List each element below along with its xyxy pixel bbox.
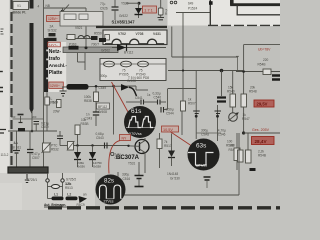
thick black bus bar long segment (30, 23, 34, 114)
Netztrafo title (49, 49, 68, 76)
vertical x232.7 (232, 71, 234, 95)
cap 77u C926 (100, 0, 119, 20)
diode Gr538 (89, 146, 96, 168)
cap 0.50u C544 (161, 89, 174, 116)
resistor 15k R540 (227, 86, 236, 114)
cap 0.47u C507 (27, 131, 40, 167)
board edge dashed vertical line (10, 0, 12, 170)
wire base left (74, 145, 129, 147)
black choke component (62, 84, 136, 90)
white box V1 top-left (13, 2, 29, 10)
red box 12V~ upper (48, 42, 61, 47)
wire down left (47, 187, 49, 199)
potentiometer 1k R547 (228, 113, 250, 122)
resistor 220 R54B (236, 58, 280, 75)
red box 12V0~ (49, 82, 64, 88)
junction dots (95, 85, 98, 88)
cap 0,17u C509 (34, 122, 50, 132)
cap 1n C343 (85, 112, 100, 126)
resistor R838 (84, 87, 99, 112)
red box 29.5V (254, 100, 274, 107)
right-mid resistor 1k (181, 98, 196, 136)
dark blob right (272, 76, 280, 80)
cap 2.2u C535 (111, 152, 123, 160)
grain overlay (0, 0, 280, 210)
mid bus wire y70.5 (168, 70, 244, 72)
choke L1 (52, 197, 64, 201)
wire below bus bar (31, 111, 33, 131)
red box NY (120, 135, 131, 141)
light box mid-top (60, 12, 103, 27)
scallop bumps (105, 39, 164, 44)
resistor 100 R549 (204, 133, 241, 188)
choke L2 (66, 197, 78, 201)
junction (76, 144, 78, 146)
black bar above title (47, 38, 57, 41)
resistor left column (45, 92, 59, 131)
junction blob (61, 10, 65, 14)
wire and arrow cap (168, 88, 196, 90)
vertical to cap right (221, 71, 223, 97)
resistor 560 R50B (158, 0, 173, 20)
resistor 10k R538 (75, 118, 88, 146)
cap C541 on wire (126, 96, 157, 105)
vertical wire x171.8 (171, 27, 173, 58)
fuse 4A Si531 area (8, 128, 57, 150)
strip box (103, 30, 167, 45)
red box 28.4V (252, 137, 275, 145)
diode mid (121, 79, 137, 96)
red pointer to 63s (170, 132, 191, 146)
white area right of strip (168, 0, 211, 26)
transformer bar (8, 167, 48, 173)
vertical x196 (195, 71, 197, 140)
left board column slightly darker (13, 0, 44, 119)
thick frame corner (230, 0, 234, 5)
inner panel bottom border (13, 118, 44, 120)
diode bottom (79, 196, 88, 203)
resistor 100 R54B (226, 140, 243, 163)
bottom-left extra light corner (0, 183, 22, 210)
ground below (60, 87, 67, 96)
resistor 17W right (57, 100, 62, 108)
diode Gr530 (167, 134, 180, 181)
right area wires (244, 44, 280, 46)
strip top thick line (96, 26, 167, 28)
slanted wire (63, 5, 69, 12)
resistor right of transistor (157, 133, 172, 168)
wires from band down (77, 53, 79, 62)
cap left column (18, 114, 24, 116)
bottom-left light area below transformer (0, 173, 95, 210)
resistor 20k R548 (241, 86, 257, 134)
cap on left branch (13, 131, 20, 167)
red pointer to 82s (109, 141, 120, 174)
paper background (0, 0, 280, 210)
black bar segment left of Netztrafo column (44, 38, 48, 92)
cap 330u C5?6 (122, 162, 144, 187)
label BF112 (97, 103, 110, 114)
wire down right (238, 133, 240, 195)
cap 0.68u C543 (96, 132, 108, 149)
thick black bus bar segment top (30, 0, 34, 9)
Netztrafo white column (48, 42, 66, 92)
wire x113 down (113, 86, 115, 135)
resistor 2.2k R54B (246, 133, 266, 163)
trimmer P5 (42, 143, 59, 154)
red box 171 (143, 6, 157, 13)
small cap under bar (25, 174, 29, 183)
wire stub up (62, 8, 64, 12)
left margin white strip (0, 0, 10, 210)
junction and wires (242, 131, 245, 134)
ground hatch (60, 15, 67, 17)
diode Gr536 (74, 146, 81, 168)
wire to panel (176, 12, 210, 14)
thyristor Gr522 (119, 3, 143, 18)
node NB wire (38, 4, 87, 9)
caps above 63s (201, 105, 226, 141)
thin frame corner (237, 6, 280, 15)
node S725/1 (46, 179, 49, 182)
red box 10.5V (162, 126, 179, 132)
node S725/2 (61, 179, 64, 182)
bottom dashed thick line (48, 206, 280, 209)
fuse body (49, 33, 56, 36)
wire with step to right (136, 86, 151, 97)
board inner vertical line (43, 0, 45, 168)
junction node (138, 2, 141, 5)
wire y57 (172, 56, 238, 58)
red box 125V~ (47, 16, 61, 22)
diode BY112 (112, 44, 166, 55)
small black mark (250, 168, 256, 171)
fuse oval (48, 182, 63, 196)
connector circles (170, 1, 173, 4)
left strip marks (1, 29, 4, 34)
red pointer line to 61s (112, 82, 129, 112)
small connector in box (105, 35, 110, 41)
right edge cap (217, 98, 226, 102)
wire (126, 2, 139, 4)
